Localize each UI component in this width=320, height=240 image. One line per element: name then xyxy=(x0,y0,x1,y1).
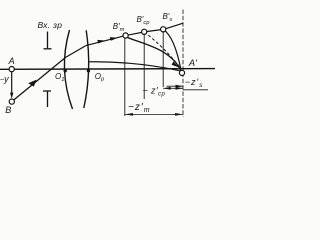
svg-text:В: В xyxy=(5,105,11,115)
dimension z'm xyxy=(125,113,183,115)
point B'm circle xyxy=(123,33,128,38)
ray from B to lens xyxy=(14,57,66,99)
ray B's to A' xyxy=(163,29,181,69)
svg-text:Вх. зр: Вх. зр xyxy=(38,20,63,30)
arrowhead on ray B-lens xyxy=(28,80,36,87)
svg-text:–y: –y xyxy=(0,74,9,84)
node O1 dot xyxy=(63,69,66,72)
dimension z'cp xyxy=(167,85,184,87)
extension line below B'cp xyxy=(143,35,145,99)
node Op dot xyxy=(87,69,90,72)
point B circle xyxy=(9,99,14,104)
point B'cp circle xyxy=(142,29,147,34)
lens left surface xyxy=(64,30,72,109)
arrowhead on curve near A' xyxy=(172,61,179,67)
point B's circle xyxy=(161,27,166,32)
entrance pupil bottom mark xyxy=(43,90,51,92)
ray inside lens xyxy=(66,46,86,58)
near-horizontal ray lens to A' xyxy=(89,62,180,71)
svg-text:A: A xyxy=(8,56,15,66)
object arrow A to B xyxy=(11,72,13,95)
extension line through A' xyxy=(182,10,184,118)
extension line below B's xyxy=(162,32,164,87)
chief ray through B'm B'cp B's xyxy=(86,23,183,45)
entrance pupil top mark xyxy=(47,32,49,49)
arrowhead 1 on chief ray xyxy=(97,40,105,44)
svg-text:A′: A′ xyxy=(188,58,198,69)
extension line below B'm xyxy=(124,38,126,116)
point A' circle xyxy=(179,70,184,75)
point A circle xyxy=(9,67,14,72)
dimension z's xyxy=(163,87,183,89)
curved ray B'm to A' xyxy=(126,37,181,71)
optical axis xyxy=(0,68,215,71)
lens right surface xyxy=(84,30,89,108)
dashed ray B'cp to A' xyxy=(144,32,180,68)
arrowhead 2 on chief ray xyxy=(110,37,118,41)
